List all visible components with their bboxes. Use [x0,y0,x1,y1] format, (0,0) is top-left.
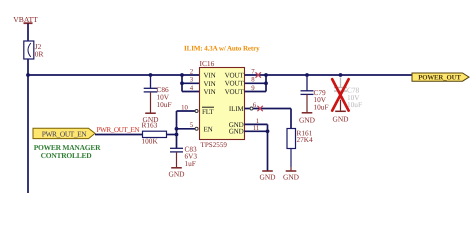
svg-text:GND: GND [229,128,244,136]
junction VOUT pin 8 [264,81,268,85]
wire GND pin 1 down [267,124,269,170]
svg-text:ILIM: 4.3A w/ Auto Retry: ILIM: 4.3A w/ Auto Retry [184,44,260,52]
junction C79 tap [305,73,309,77]
svg-text:POWER_OUT: POWER_OUT [418,74,461,81]
svg-text:27K4: 27K4 [297,135,314,144]
wire to FLT pin 10 [177,110,196,112]
svg-text:2: 2 [190,68,194,75]
svg-text:GND: GND [168,169,185,178]
wire VOUT pins to bus [245,74,267,76]
ILIM pin bubble [250,107,253,110]
junction C86 tap [149,73,153,77]
wire GND pin 1 [245,123,268,125]
svg-text:GND: GND [332,114,349,123]
svg-text:FLT: FLT [202,108,214,116]
ground under IC [259,171,276,182]
svg-text:VIN: VIN [204,80,216,88]
resistor R163 100K [142,121,167,146]
svg-text:PWR_OUT_EN: PWR_OUT_EN [42,129,88,138]
ground under C78 [332,100,349,123]
power port VBATT [13,15,38,24]
not-fitted cross over C78 [332,79,348,110]
junction R163/EN [175,133,179,137]
junction VBATT rail / VIN wire [26,73,30,77]
ground under C83 [168,168,185,179]
svg-text:4: 4 [190,85,194,92]
wire GND pin 11 [245,130,268,132]
wire EN/FLT vertical net [176,111,178,148]
junction GND pins [266,129,270,133]
wire flag to R163 [95,134,143,136]
svg-text:GND: GND [259,173,276,182]
svg-text:IC16: IC16 [200,59,215,68]
FLT pin bubble [195,110,198,113]
comment POWER MANAGER CONTROLLED [34,143,101,160]
capacitor C79 [301,75,329,112]
junction VIN bus top [180,73,184,77]
svg-text:10uF: 10uF [314,102,329,111]
op-amp U1 : IC16 TPS2559 body [200,59,245,149]
wire to pin 4 [182,91,200,93]
svg-text:CONTROLLED: CONTROLLED [41,151,93,160]
no-ERC cross pin 7 [256,72,261,77]
port PWR_OUT_EN flag [33,128,95,138]
junction VOUT pin 7 [264,73,268,77]
svg-text:R163: R163 [142,121,158,130]
junction EN pin [175,127,179,131]
svg-text:VOUT: VOUT [225,88,245,96]
wire to pin 3 [182,82,200,84]
junction C78 tap [339,73,343,77]
capacitor C83 [170,144,197,168]
wire VOUT bus vertical [265,75,267,92]
svg-text:PWR_OUT_EN: PWR_OUT_EN [97,126,141,134]
svg-text:10uF: 10uF [347,100,362,109]
ground under C79 [299,113,316,125]
svg-text:100K: 100K [142,137,159,146]
pin names inside IC [202,71,244,135]
ground under C86 [142,113,159,124]
FLT overline [202,106,214,108]
svg-text:EN: EN [204,126,213,134]
port POWER_OUT [412,73,469,81]
ILIM pin wire [245,108,292,110]
svg-text:VOUT: VOUT [225,80,245,88]
svg-text:3: 3 [190,77,194,84]
svg-text:1uF: 1uF [185,159,196,168]
svg-text:VOUT: VOUT [225,71,245,79]
ground under R161 [283,171,300,182]
wire R161 to ground [290,149,292,168]
svg-text:0R: 0R [35,49,44,58]
wire VIN horizontal to IC pin 2 [28,74,200,76]
wire to EN pin 5 [177,128,196,130]
svg-text:ILIM: ILIM [229,105,244,113]
wire VBATT rail vertical [27,23,29,193]
svg-text:GND: GND [283,173,300,182]
svg-text:GND: GND [299,115,316,124]
svg-text:VIN: VIN [204,72,216,80]
EN pin bubble [195,127,198,130]
wire POWER_OUT horizontal [266,74,412,76]
wire R163 to EN node [167,134,177,136]
no-ERC cross pin 6 [257,106,262,111]
junction VIN pin3 [180,81,184,85]
resistor J2 0R (jumper) [24,41,44,59]
wire ILIM down to R161 [290,109,292,129]
svg-text:TPS2559: TPS2559 [201,141,228,149]
svg-text:VIN: VIN [204,88,216,96]
wire VIN bus vertical [181,75,183,92]
capacitor C78 (not fitted, greyed) [334,78,362,110]
resistor R161 27K4 [287,128,313,148]
capacitor C86 [144,75,172,113]
svg-text:10uF: 10uF [157,100,172,109]
